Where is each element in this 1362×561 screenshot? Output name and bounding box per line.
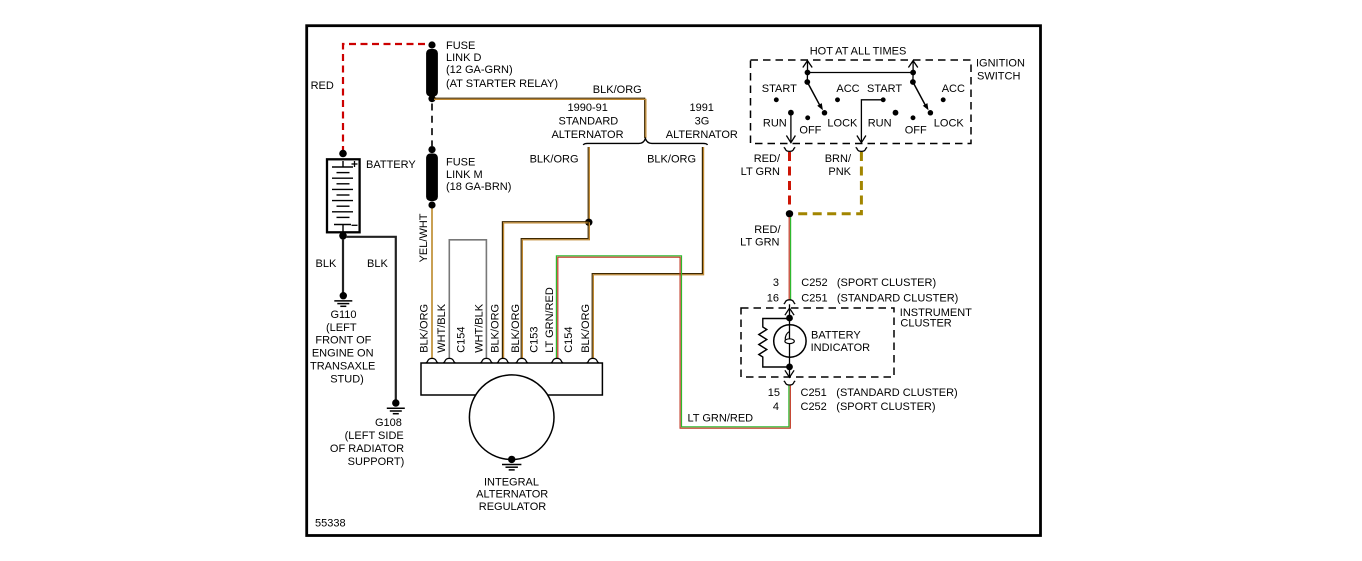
svg-text:ENGINE ON: ENGINE ON: [312, 347, 374, 359]
alternator circle: [469, 375, 554, 460]
svg-text:(SPORT CLUSTER): (SPORT CLUSTER): [836, 401, 935, 413]
wire BLK/ORG 1990-91 branch to junction: [588, 147, 589, 219]
switch 2 position dots: [881, 97, 946, 120]
svg-text:RUN: RUN: [763, 118, 787, 130]
svg-text:(SPORT CLUSTER): (SPORT CLUSTER): [837, 277, 936, 289]
cluster input arrow: [785, 304, 794, 318]
node bottom of battery indicator: [786, 364, 793, 371]
svg-text:REGULATOR: REGULATOR: [479, 501, 546, 513]
regulator pin labels: [418, 287, 592, 353]
svg-text:ALTERNATOR: ALTERNATOR: [551, 129, 623, 141]
svg-text:OF RADIATOR: OF RADIATOR: [330, 443, 404, 455]
svg-text:LINK M: LINK M: [446, 169, 483, 181]
svg-text:(LEFT: (LEFT: [326, 322, 357, 334]
svg-text:(LEFT SIDE: (LEFT SIDE: [345, 430, 404, 442]
svg-text:ACC: ACC: [836, 83, 859, 95]
svg-text:LINK D: LINK D: [446, 52, 482, 64]
svg-text:BRN/: BRN/: [825, 153, 852, 165]
svg-text:1990-91: 1990-91: [568, 102, 608, 114]
integral alternator regulator box: [421, 358, 602, 395]
ground G108: [330, 399, 405, 468]
svg-text:YEL/WHT: YEL/WHT: [418, 213, 430, 262]
ground alternator: [502, 456, 521, 470]
resistor shunt: [759, 319, 787, 368]
ignition switch box: [751, 58, 1025, 144]
svg-text:OFF: OFF: [799, 124, 821, 136]
label RED/ LT GRN: [741, 153, 781, 178]
svg-text:ALTERNATOR: ALTERNATOR: [476, 489, 548, 501]
svg-text:BLK/ORG: BLK/ORG: [593, 84, 642, 96]
switch 1 output arrow: [786, 113, 795, 143]
svg-text:RUN: RUN: [868, 118, 892, 130]
wire WHT/BLK loop C154: [449, 240, 486, 358]
svg-text:CLUSTER: CLUSTER: [900, 317, 951, 329]
label pin 15 C251 STANDARD CLUSTER: [768, 387, 958, 399]
wire BLK/ORG junction to regulator pin: [502, 222, 588, 359]
svg-text:BLK/ORG: BLK/ORG: [489, 304, 501, 353]
svg-text:BLK/ORG: BLK/ORG: [418, 304, 430, 353]
label YEL/WHT: [418, 213, 430, 262]
svg-text:G108: G108: [375, 417, 402, 429]
svg-text:LOCK: LOCK: [827, 118, 858, 130]
switch 2 labels: [867, 83, 965, 137]
svg-text:16: 16: [767, 293, 779, 305]
svg-text:G110: G110: [330, 309, 356, 321]
svg-text:(STANDARD CLUSTER): (STANDARD CLUSTER): [836, 387, 957, 399]
wire BLK/ORG junction to regulator pin 2: [521, 222, 589, 358]
label BLK/ORG: [593, 84, 642, 96]
label BLK/ORG: [647, 154, 696, 166]
wire BLK/ORG fuse D to branch brace: [434, 98, 646, 138]
brace branch selector: [583, 139, 707, 145]
label INTEGRAL ALTERNATOR REGULATOR: [476, 476, 548, 512]
ground G110: [310, 292, 375, 385]
svg-text:SWITCH: SWITCH: [977, 71, 1020, 83]
connector C251 above instrument cluster: [784, 300, 795, 304]
svg-text:RED/: RED/: [754, 224, 781, 236]
wire between switch feeds: [808, 72, 914, 74]
connector C251 below instrument cluster: [784, 381, 795, 385]
node top of battery indicator: [786, 315, 793, 322]
wire YEL/WHT fuse M to regulator: [431, 209, 433, 359]
svg-text:BLK/ORG: BLK/ORG: [580, 304, 592, 353]
svg-text:INTEGRAL: INTEGRAL: [484, 476, 539, 488]
connector below ignition switch START output: [856, 147, 867, 151]
node junction RED/LT GRN and BRN/PNK: [786, 210, 793, 217]
svg-text:C251: C251: [801, 387, 827, 399]
svg-text:55338: 55338: [315, 518, 346, 530]
svg-text:C154: C154: [563, 327, 575, 353]
fuse link D: [426, 40, 558, 102]
svg-text:IGNITION: IGNITION: [976, 58, 1025, 70]
connector below ignition switch RUN output: [784, 147, 795, 151]
switch 1 feed arrow: [803, 61, 812, 76]
svg-text:FUSE: FUSE: [446, 157, 475, 169]
label pin 16 C251 STANDARD CLUSTER: [767, 293, 959, 305]
svg-text:4: 4: [773, 401, 779, 413]
svg-text:FUSE: FUSE: [446, 40, 475, 52]
svg-text:BLK: BLK: [316, 258, 337, 270]
svg-text:SUPPORT): SUPPORT): [348, 456, 405, 468]
label BRN/ PNK: [825, 153, 852, 178]
wire dashed link between fuse D and fuse M: [431, 104, 433, 147]
svg-text:15: 15: [768, 387, 780, 399]
svg-text:(AT STARTER RELAY): (AT STARTER RELAY): [446, 78, 558, 90]
branch labels 1990-91 STANDARD ALTERNATOR: [551, 102, 623, 141]
svg-text:C252: C252: [801, 401, 827, 413]
label BLK: [316, 258, 337, 270]
wire RED/LT GRN junction to instrument cluster: [789, 217, 790, 300]
svg-text:TRANSAXLE: TRANSAXLE: [310, 360, 375, 372]
label HOT AT ALL TIMES: [810, 46, 907, 58]
wire RED/LT GRN dashed from ignition switch: [788, 152, 791, 210]
svg-text:BLK/ORG: BLK/ORG: [647, 154, 696, 166]
svg-text:(18 GA-BRN): (18 GA-BRN): [446, 181, 511, 193]
wire BLK/ORG 1991 3G branch to regulator: [592, 147, 703, 358]
fuse link M: [426, 146, 511, 209]
svg-text:(12 GA-GRN): (12 GA-GRN): [446, 64, 513, 76]
svg-text:WHT/BLK: WHT/BLK: [436, 303, 448, 353]
svg-text:BATTERY: BATTERY: [811, 330, 861, 342]
instrument cluster box: [741, 307, 972, 377]
switch 2 output arrow from START: [857, 100, 883, 143]
label BLK/ORG: [530, 154, 579, 166]
svg-text:ACC: ACC: [942, 83, 965, 95]
svg-text:RED: RED: [311, 80, 334, 92]
label RED: [311, 80, 334, 92]
wire LT GRN/RED regulator to instrument cluster: [556, 256, 790, 428]
svg-text:C153: C153: [528, 327, 540, 353]
svg-text:LT GRN/RED: LT GRN/RED: [688, 413, 754, 425]
svg-text:LOCK: LOCK: [934, 118, 965, 130]
svg-text:LT GRN/RED: LT GRN/RED: [544, 287, 556, 353]
wire BLK battery to G110: [342, 239, 344, 293]
svg-text:1991: 1991: [689, 102, 713, 114]
svg-text:BATTERY: BATTERY: [366, 159, 416, 171]
svg-text:C251: C251: [801, 293, 827, 305]
wire RED battery to fuse link D: [343, 44, 430, 153]
svg-text:BLK: BLK: [367, 258, 388, 270]
cluster output arrow: [785, 367, 794, 377]
switch 1 position dots: [774, 97, 840, 120]
label RED/ LT GRN 2: [740, 224, 781, 248]
svg-text:OFF: OFF: [905, 124, 927, 136]
svg-text:C252: C252: [801, 277, 827, 289]
svg-text:START: START: [762, 83, 797, 95]
battery: [327, 150, 416, 240]
switch 2 pivot and arm: [910, 73, 929, 111]
label pin 3 C252 SPORT CLUSTER: [773, 277, 936, 289]
label BLK: [367, 258, 388, 270]
svg-text:FRONT OF: FRONT OF: [315, 334, 371, 346]
svg-text:(STANDARD CLUSTER): (STANDARD CLUSTER): [837, 293, 958, 305]
svg-text:LT GRN: LT GRN: [741, 166, 780, 178]
label 55338: [315, 518, 346, 530]
branch labels 1991 3G ALTERNATOR: [666, 102, 738, 141]
svg-text:RED/: RED/: [754, 153, 781, 165]
svg-text:WHT/BLK: WHT/BLK: [473, 303, 485, 353]
label LT GRN/RED: [688, 413, 754, 425]
svg-text:INDICATOR: INDICATOR: [811, 342, 871, 354]
svg-text:BLK/ORG: BLK/ORG: [530, 154, 579, 166]
svg-text:STUD): STUD): [330, 373, 364, 385]
svg-text:STANDARD: STANDARD: [559, 116, 619, 128]
svg-text:C154: C154: [456, 327, 468, 353]
svg-text:3: 3: [773, 277, 779, 289]
wire BRN/PNK dashed from ignition switch: [794, 152, 862, 214]
battery indicator lamp: [774, 318, 870, 367]
switch 2 feed arrow: [908, 61, 917, 76]
label pin 4 C252 SPORT CLUSTER: [773, 401, 936, 413]
svg-text:ALTERNATOR: ALTERNATOR: [666, 129, 738, 141]
svg-text:HOT AT ALL TIMES: HOT AT ALL TIMES: [810, 46, 907, 58]
switch 1 labels: [762, 83, 860, 137]
svg-text:BLK/ORG: BLK/ORG: [510, 304, 522, 353]
svg-text:PNK: PNK: [828, 166, 851, 178]
svg-text:3G: 3G: [695, 116, 710, 128]
wire BLK battery to G108: [346, 237, 396, 400]
switch 1 pivot and arm: [804, 73, 823, 111]
node junction BLK/ORG: [585, 219, 592, 226]
svg-text:START: START: [867, 83, 902, 95]
svg-text:LT GRN: LT GRN: [740, 236, 779, 248]
